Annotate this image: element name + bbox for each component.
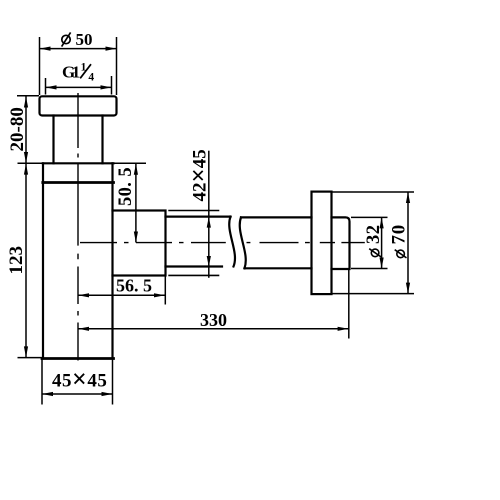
body right lower [111, 276, 113, 359]
collar top [43, 162, 114, 164]
42x45 lower tick [168, 274, 219, 276]
neck right [101, 116, 103, 164]
dia32 dim line [381, 217, 383, 268]
dia70 ext bottom [332, 293, 414, 295]
top cap flange [40, 96, 117, 115]
centerlines [78, 93, 365, 361]
svg-text:1: 1 [72, 63, 81, 82]
50.5 arrows [134, 164, 138, 175]
42x45 arrows [207, 217, 211, 228]
body bottom [42, 357, 114, 360]
330 arrows [78, 327, 89, 331]
vertical centerline body [77, 93, 79, 361]
dia70 arrows [406, 192, 410, 203]
56.5 right ext [164, 273, 166, 305]
dia50 ext left [39, 37, 41, 95]
spigot outline [332, 217, 350, 269]
pipe top right of break [241, 216, 312, 218]
45x45 ext left [41, 359, 43, 405]
G1-1/4 dim line [46, 86, 112, 88]
G fraction slash [80, 64, 91, 78]
wall flange [312, 192, 332, 295]
svg-text:50: 50 [76, 30, 93, 49]
45x45 arrows [42, 392, 53, 396]
dia32 arrows [380, 217, 384, 228]
56.5 arrows [78, 293, 89, 297]
dia32 ext top [351, 216, 388, 218]
G1-1/4 ext right [111, 76, 113, 95]
45x45 dim line [42, 393, 113, 395]
dia50 arrows [40, 47, 51, 51]
svg-text:20-80: 20-80 [7, 107, 28, 151]
collar bottom [43, 181, 114, 184]
20-80 arrows [24, 97, 28, 108]
56.5 dim line [78, 294, 165, 296]
svg-text:123: 123 [6, 246, 27, 275]
body left [42, 163, 44, 358]
horizontal centerline pipe [80, 242, 365, 244]
123 arrows [24, 164, 28, 175]
123 bottom ext [18, 357, 43, 359]
svg-text:32: 32 [364, 225, 384, 245]
svg-text:42×45: 42×45 [186, 149, 213, 201]
body right upper [111, 163, 113, 210]
svg-text:70: 70 [389, 224, 410, 245]
svg-text:4: 4 [88, 72, 94, 84]
dia50 ext right [116, 37, 118, 95]
42x45 dim line [208, 151, 210, 278]
arrowheads [24, 47, 410, 397]
neck left [52, 116, 54, 164]
mid ext line at body top [18, 162, 44, 164]
thin dimension geometry [17, 37, 414, 405]
45x45 ext right [112, 359, 114, 405]
330 right ext [348, 270, 350, 339]
dia70 ext top [332, 191, 414, 193]
compression nut stub [113, 211, 166, 276]
dia70 dim line [407, 192, 409, 294]
dia32 ext bottom [351, 268, 388, 270]
label dia70 [389, 224, 410, 258]
svg-text:56. 5: 56. 5 [116, 276, 152, 296]
label dia32 [364, 225, 384, 257]
50.5 top ext [114, 162, 147, 164]
left dim line 20-80 and 123 [25, 97, 27, 358]
G1-1/4 arrows [46, 85, 57, 89]
break curve right [240, 217, 246, 268]
pipe top left of break [166, 216, 231, 218]
dimension texts [6, 30, 410, 394]
break curve left [229, 217, 235, 267]
dia50 dim line [40, 48, 117, 50]
pipe bottom right of break [245, 267, 312, 269]
42x45 upper tick [168, 210, 219, 212]
G1-1/4 ext left [45, 78, 47, 95]
label dia50 symbol [62, 32, 71, 46]
svg-text:330: 330 [200, 310, 227, 330]
330 dim line [78, 328, 349, 330]
pipe bottom left of break [166, 265, 223, 267]
50.5 dim line [135, 164, 137, 243]
20-80 top ext [17, 95, 39, 97]
svg-text:50. 5: 50. 5 [116, 167, 136, 206]
